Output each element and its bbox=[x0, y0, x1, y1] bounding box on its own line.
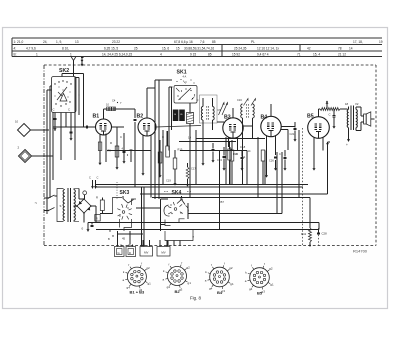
svg-text:C18: C18 bbox=[240, 145, 246, 149]
svg-text:15: 15 bbox=[176, 46, 180, 50]
svg-text:7,6: 7,6 bbox=[200, 40, 205, 44]
svg-text:B4: B4 bbox=[217, 290, 223, 295]
svg-text:15, 4: 15, 4 bbox=[313, 52, 320, 56]
svg-text:1: 21,0: 1: 21,0 bbox=[14, 40, 24, 44]
svg-text:MV: MV bbox=[144, 251, 148, 255]
svg-text:12 16 12 14, 1x: 12 16 12 14, 1x bbox=[257, 46, 279, 50]
svg-text:SK3: SK3 bbox=[120, 190, 130, 196]
svg-text:67,8 6,6 µ 16: 67,8 6,6 µ 16 bbox=[174, 40, 193, 44]
svg-text:C17: C17 bbox=[191, 167, 196, 171]
svg-text:30,88,59,31,54,74,16: 30,88,59,31,54,74,16 bbox=[184, 46, 214, 50]
svg-text:4 A: 4 A bbox=[183, 74, 187, 78]
svg-text:C: C bbox=[197, 98, 199, 102]
svg-text:14: 14 bbox=[349, 46, 353, 50]
svg-text:C19: C19 bbox=[166, 179, 171, 183]
svg-text:B2: B2 bbox=[137, 114, 144, 120]
svg-text:18: 18 bbox=[345, 102, 349, 106]
svg-text:R14700: R14700 bbox=[353, 249, 368, 254]
svg-text:78: 78 bbox=[338, 46, 342, 50]
svg-text:42: 42 bbox=[307, 46, 311, 50]
svg-text:g4: g4 bbox=[167, 285, 171, 289]
svg-text:9,4 67 4: 9,4 67 4 bbox=[257, 52, 269, 56]
svg-text:C26: C26 bbox=[269, 159, 274, 163]
svg-text:85: 85 bbox=[208, 52, 212, 56]
svg-text:45: 45 bbox=[122, 237, 126, 241]
svg-text:C: C bbox=[279, 152, 281, 156]
svg-text:C: C bbox=[53, 108, 55, 112]
svg-text:4:: 4: bbox=[14, 46, 17, 50]
svg-text:S: S bbox=[244, 155, 246, 159]
svg-text:C: C bbox=[89, 176, 91, 180]
svg-text:C21: C21 bbox=[290, 132, 295, 136]
svg-text:25: 25 bbox=[134, 46, 138, 50]
svg-text:PL: PL bbox=[251, 40, 255, 44]
svg-text:B:: B: bbox=[14, 52, 17, 56]
svg-text:R15: R15 bbox=[178, 148, 183, 152]
svg-text:g2: g2 bbox=[269, 267, 273, 271]
svg-text:C: C bbox=[236, 152, 238, 156]
svg-text:G: G bbox=[118, 251, 120, 255]
svg-text:g2: g2 bbox=[186, 265, 190, 269]
svg-text:C: C bbox=[97, 176, 99, 180]
svg-text:S: S bbox=[60, 204, 62, 208]
svg-text:9 15: 9 15 bbox=[190, 52, 196, 56]
svg-text:B5: B5 bbox=[307, 114, 314, 120]
svg-text:f: f bbox=[128, 263, 129, 267]
svg-text:25 24,35: 25 24,35 bbox=[234, 46, 247, 50]
svg-text:23 22: 23 22 bbox=[112, 40, 120, 44]
svg-text:C9: C9 bbox=[218, 108, 222, 112]
svg-text:B7: B7 bbox=[221, 200, 225, 204]
svg-text:B4: B4 bbox=[261, 115, 268, 121]
svg-text:10: 10 bbox=[15, 120, 19, 124]
svg-text:~: ~ bbox=[35, 201, 38, 206]
svg-text:C: C bbox=[68, 108, 70, 112]
svg-text:B: B bbox=[108, 237, 110, 241]
svg-text:g4: g4 bbox=[209, 286, 213, 290]
svg-text:C16: C16 bbox=[237, 98, 242, 102]
svg-text:g4: g4 bbox=[249, 287, 253, 291]
svg-text:B5: B5 bbox=[257, 291, 263, 296]
svg-text:85: 85 bbox=[212, 40, 216, 44]
svg-text:13: 13 bbox=[75, 40, 79, 44]
svg-text:g2: g2 bbox=[146, 266, 150, 270]
svg-text:SK4: SK4 bbox=[172, 190, 182, 196]
svg-text:B3: B3 bbox=[224, 115, 231, 121]
svg-text:f: f bbox=[211, 263, 212, 267]
svg-text:C: C bbox=[120, 135, 122, 139]
svg-text:g2: g2 bbox=[229, 266, 233, 270]
svg-text:D: D bbox=[129, 251, 131, 255]
svg-text:8 10,: 8 10, bbox=[62, 46, 69, 50]
svg-text:f: f bbox=[141, 261, 142, 265]
svg-text:R: R bbox=[96, 217, 98, 221]
svg-text:C: C bbox=[329, 113, 331, 117]
svg-text:g1: g1 bbox=[230, 282, 234, 286]
svg-text:19: 19 bbox=[379, 40, 383, 44]
svg-text:1: 1 bbox=[36, 52, 38, 56]
svg-text:f: f bbox=[224, 261, 225, 265]
svg-text:f: f bbox=[251, 264, 252, 268]
svg-text:C4: C4 bbox=[112, 99, 116, 103]
svg-text:Fig. 8: Fig. 8 bbox=[190, 296, 202, 301]
svg-text:4: 4 bbox=[160, 52, 162, 56]
svg-text:B1: B1 bbox=[93, 114, 100, 120]
svg-text:15 92: 15 92 bbox=[232, 52, 240, 56]
svg-text:B2: B2 bbox=[174, 289, 180, 294]
svg-text:B1 + B3: B1 + B3 bbox=[130, 290, 146, 295]
svg-text:C28: C28 bbox=[322, 232, 328, 236]
svg-text:R: R bbox=[96, 196, 98, 200]
svg-text:17, 18,: 17, 18, bbox=[353, 40, 363, 44]
svg-text:g3: g3 bbox=[222, 289, 226, 293]
svg-text:71: 71 bbox=[297, 52, 301, 56]
svg-text:1, 9,: 1, 9, bbox=[56, 40, 62, 44]
svg-text:1: 1 bbox=[70, 52, 72, 56]
svg-text:+: + bbox=[346, 143, 348, 147]
svg-text:g1: g1 bbox=[270, 283, 274, 287]
svg-text:f: f bbox=[264, 262, 265, 266]
svg-text:21 12: 21 12 bbox=[338, 52, 346, 56]
svg-text:g3: g3 bbox=[262, 289, 266, 293]
svg-text:4,7 9,6: 4,7 9,6 bbox=[26, 46, 36, 50]
svg-text:V2: V2 bbox=[355, 102, 359, 106]
svg-text:g1: g1 bbox=[188, 281, 192, 285]
svg-text:SK2: SK2 bbox=[59, 68, 69, 74]
svg-text:15, 6: 15, 6 bbox=[162, 46, 169, 50]
svg-text:14, 24,4 25 6,14,0,15: 14, 24,4 25 6,14,0,15 bbox=[102, 52, 132, 56]
svg-text:MV: MV bbox=[161, 251, 165, 255]
svg-text:R41: R41 bbox=[301, 232, 307, 236]
svg-text:6,35 15, 5: 6,35 15, 5 bbox=[104, 46, 118, 50]
svg-text:g1: g1 bbox=[147, 282, 151, 286]
svg-text:f: f bbox=[168, 262, 169, 266]
svg-text:24,: 24, bbox=[43, 40, 48, 44]
svg-text:R: R bbox=[110, 141, 112, 145]
